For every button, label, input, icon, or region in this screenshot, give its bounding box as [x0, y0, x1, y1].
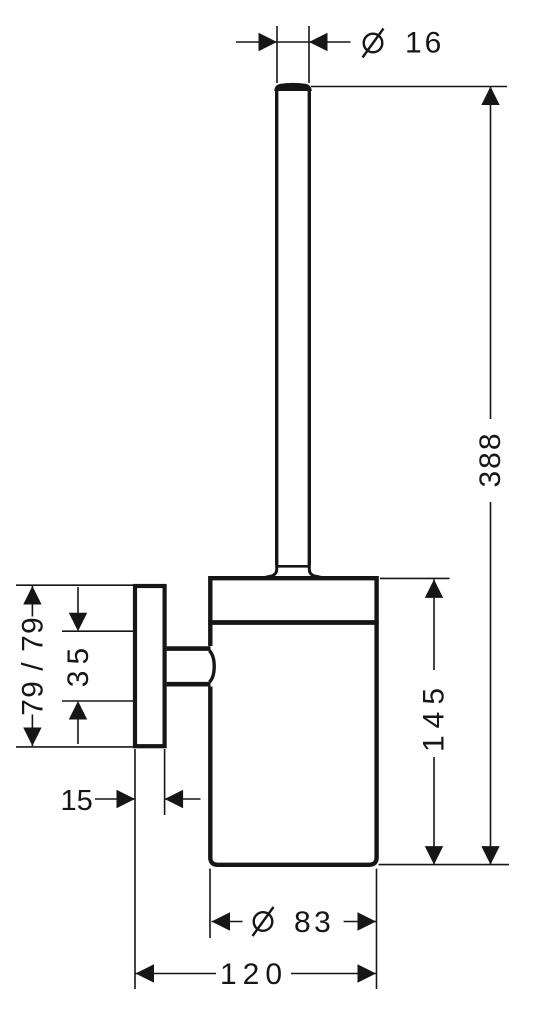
dim 35 arrow lower [69, 701, 87, 720]
svg-text:388: 388 [474, 431, 507, 487]
svg-text:16: 16 [405, 27, 444, 60]
dim 15 dimension line [95, 798, 201, 800]
dim Ø83 extension line left [209, 869, 211, 938]
svg-text:15: 15 [61, 785, 93, 817]
svg-text:35: 35 [62, 642, 95, 687]
wall plate [135, 586, 165, 746]
dim 15 extension line right [164, 749, 166, 815]
dim 388 arrow bottom [481, 846, 499, 865]
mounting arm top edge [167, 646, 211, 651]
dim 15 arrow right [165, 790, 184, 808]
dim 35 arrow upper [69, 613, 87, 632]
rod flare right [309, 565, 321, 578]
dim Ø16 dimension line [236, 41, 351, 43]
dim Ø83 diameter symbol [253, 907, 274, 936]
dim Ø83 arrow left [212, 912, 231, 930]
dim Ø83 extension line right [376, 869, 378, 989]
dim Ø16 arrow right [309, 33, 328, 51]
container rim line [208, 620, 378, 625]
dim Ø16 diameter symbol [363, 29, 384, 58]
dim Ø83 arrow right [358, 912, 377, 930]
svg-text:79 / 79: 79 / 79 [17, 616, 50, 715]
dim 388 top extension line [311, 86, 507, 88]
brush handle rod [277, 90, 310, 565]
svg-text:83: 83 [294, 906, 334, 939]
dim 15 extension line left [134, 749, 136, 989]
dim 388 dimension line [490, 87, 492, 865]
dim 145 top extension line [380, 577, 450, 579]
dim 120 arrow right [358, 964, 377, 982]
dim 15 arrow left [117, 790, 136, 808]
bottom shared extension line [379, 864, 509, 866]
dim Ø16 extension line right [308, 26, 310, 83]
rod flare left [265, 565, 277, 578]
svg-text:120: 120 [220, 958, 288, 991]
mounting arm end bulge [209, 651, 214, 683]
dim 120 arrow left [136, 964, 155, 982]
dim 388 arrow top [481, 87, 499, 106]
rod joint line [278, 565, 309, 568]
mounting arm bottom edge [167, 682, 211, 687]
rod top cap [275, 83, 311, 90]
dim 35 upper reference line [62, 630, 133, 632]
dim 79/79 top extension line [16, 584, 133, 586]
dim Ø16 extension line left [276, 26, 278, 83]
dim 35 lower reference line [62, 700, 133, 702]
dim 145 arrow top [425, 579, 443, 598]
container body outline [210, 578, 376, 865]
dim Ø83 dimension line [212, 921, 377, 923]
dim 79/79 bottom extension line [16, 746, 133, 748]
dim 145 arrow bottom [425, 846, 443, 865]
dim 79/79 arrow top [23, 586, 41, 605]
dim 120 dimension line [136, 973, 377, 975]
dim 145 dimension line [433, 579, 435, 864]
dim 35 tails [77, 587, 79, 744]
dim Ø16 arrow left [259, 33, 278, 51]
svg-text:145: 145 [418, 681, 451, 752]
dim 79/79 dimension line stubs [31, 586, 33, 746]
dim 79/79 arrow bottom [23, 728, 41, 747]
